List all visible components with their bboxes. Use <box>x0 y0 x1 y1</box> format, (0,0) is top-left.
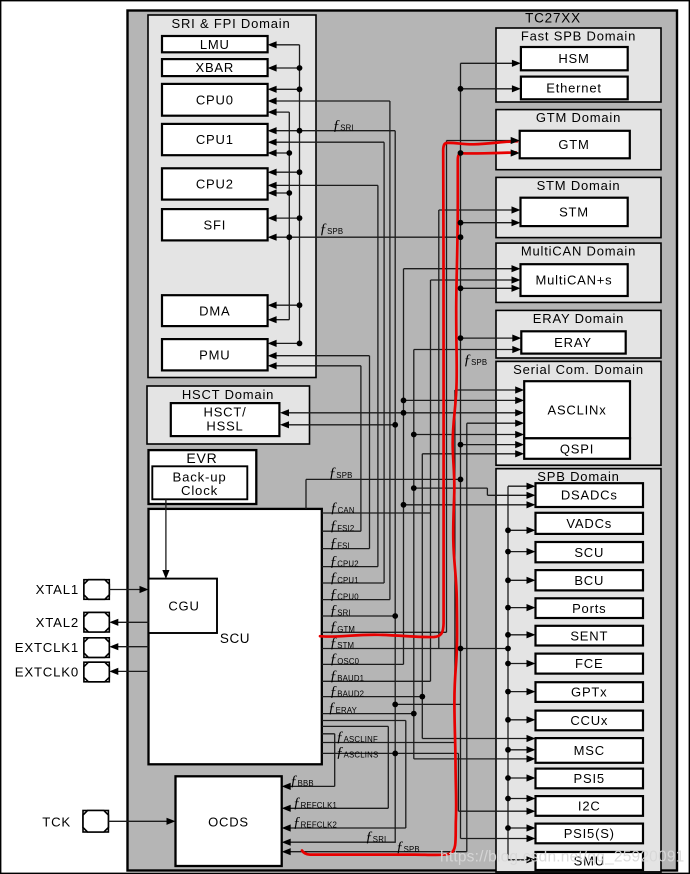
svg-text:ƒ: ƒ <box>336 745 344 761</box>
wire SCU to EXTCLK1 <box>112 646 149 648</box>
net f_SRI riser <box>270 131 395 843</box>
svg-text:EXTCLK1: EXTCLK1 <box>15 640 79 655</box>
svg-text:SRI: SRI <box>340 124 354 133</box>
pad EXTCLK0 <box>84 662 109 682</box>
block PSI5 <box>536 769 644 789</box>
svg-text:VADCs: VADCs <box>566 516 612 531</box>
wire f_STM across to SPB trunk <box>322 648 508 650</box>
svg-text:SRI: SRI <box>337 609 351 618</box>
wire ERAY arrow 1 <box>461 337 519 339</box>
block Back-up Clock <box>152 466 247 499</box>
block QSPI <box>524 438 630 459</box>
block SENT <box>536 626 644 646</box>
bus SPB domain trunk <box>507 486 509 860</box>
wire ASCLINx arrow 3 <box>404 412 522 414</box>
bus f_SRI distribution (vertical) <box>299 45 301 344</box>
svg-text:ƒ: ƒ <box>330 619 338 635</box>
block MultiCAN+s <box>521 264 628 296</box>
wire f_ERAY from SCU <box>322 713 414 715</box>
svg-text:Fast SPB Domain: Fast SPB Domain <box>521 28 636 43</box>
block DSADCs <box>536 483 644 507</box>
wire MSC arrow 1 <box>422 738 533 740</box>
svg-text:EVR: EVR <box>186 450 217 466</box>
wire ASCLINx arrow 2 <box>404 399 522 401</box>
svg-text:OCDS: OCDS <box>208 815 249 830</box>
wire HSM arrow <box>461 62 519 64</box>
SPB Domain box <box>496 469 661 872</box>
svg-text:ƒ: ƒ <box>293 795 301 811</box>
svg-text:DSADCs: DSADCs <box>561 488 618 503</box>
block VADCs <box>536 513 644 534</box>
block ASCLINx <box>524 381 630 438</box>
svg-text:CPU0: CPU0 <box>196 92 234 107</box>
SCU box <box>149 509 322 764</box>
svg-text:SPB Domain: SPB Domain <box>537 469 619 484</box>
svg-text:ƒ: ƒ <box>333 118 341 134</box>
wire ASCLINx arrow 5 <box>414 434 522 436</box>
ERAY Domain box <box>496 310 661 358</box>
svg-text:XTAL1: XTAL1 <box>36 582 79 597</box>
svg-text:CPU2: CPU2 <box>196 177 234 192</box>
svg-text:Serial Com. Domain: Serial Com. Domain <box>513 362 644 377</box>
block Ethernet <box>521 77 628 100</box>
net f_ERAY riser / ERAY arrow 2 <box>414 350 519 759</box>
block OCDS <box>176 776 282 866</box>
block SFI <box>162 209 268 240</box>
net f_OSC0 riser / MultiCAN arrow 1 <box>322 269 518 665</box>
wire f_SRI from SCU <box>322 615 395 617</box>
arrowheads <box>140 586 149 593</box>
net f_STM riser / STM arrow 1 <box>439 210 518 649</box>
svg-text:CPU1: CPU1 <box>337 576 359 585</box>
block BCU <box>536 570 644 590</box>
block GTM <box>520 131 630 159</box>
svg-text:REFCLK1: REFCLK1 <box>301 801 338 810</box>
wire PSI5(S) arrow 2 <box>461 838 534 840</box>
svg-text:CAN: CAN <box>338 506 355 515</box>
wire QSPI arrow 1 <box>461 444 522 446</box>
svg-text:ƒ: ƒ <box>330 554 338 570</box>
svg-text:SPB: SPB <box>327 227 343 236</box>
wire DSADCs arrow 3 <box>404 504 534 506</box>
svg-text:ASCLINS: ASCLINS <box>344 751 379 760</box>
svg-text:SRI: SRI <box>373 835 387 844</box>
svg-text:SENT: SENT <box>570 628 608 643</box>
svg-text:Ethernet: Ethernet <box>546 81 602 96</box>
svg-text:STM Domain: STM Domain <box>537 178 621 193</box>
block PMU <box>162 339 268 370</box>
block FCE <box>536 654 644 674</box>
svg-text:EXTCLK0: EXTCLK0 <box>15 664 79 679</box>
MultiCAN Domain box <box>496 243 661 302</box>
block DMA <box>162 295 268 326</box>
wire MSC arrow 3 <box>414 758 533 760</box>
pad XTAL1 <box>84 580 109 600</box>
net f_CPU0 <box>270 101 390 600</box>
svg-text:SPB: SPB <box>404 845 420 854</box>
STM Domain box <box>496 177 661 237</box>
svg-text:HSM: HSM <box>558 51 589 66</box>
svg-text:ƒ: ƒ <box>464 352 472 368</box>
wire to HSCT/HSSL 2 <box>283 424 396 426</box>
bus f_SPB distribution (vertical) <box>288 112 290 320</box>
pad XTAL2 <box>84 612 109 632</box>
net f_BBB to OCDS <box>284 734 335 787</box>
svg-text:ƒ: ƒ <box>336 729 344 745</box>
block LMU <box>162 36 268 52</box>
svg-text:MultiCAN Domain: MultiCAN Domain <box>521 244 636 259</box>
svg-text:PSI5(S): PSI5(S) <box>564 826 615 841</box>
svg-text:CPU2: CPU2 <box>337 560 359 569</box>
svg-text:ASCLINx: ASCLINx <box>547 403 606 418</box>
block GPTx <box>536 682 644 702</box>
svg-text:ƒ: ƒ <box>330 684 338 700</box>
svg-text:ƒ: ƒ <box>330 587 338 603</box>
svg-text:CGU: CGU <box>168 599 199 614</box>
svg-text:ƒ: ƒ <box>329 465 337 481</box>
TC27XX outer boundary box <box>128 11 678 871</box>
net f_ASCLINF / ASCLINx arrow 1 <box>322 390 522 743</box>
svg-text:QSPI: QSPI <box>560 442 594 457</box>
svg-text:CCUx: CCUx <box>570 713 608 728</box>
svg-text:ƒ: ƒ <box>330 536 338 552</box>
wire STM arrow 2 <box>461 222 519 224</box>
svg-text:ƒ: ƒ <box>293 815 301 831</box>
EVR box <box>149 450 257 504</box>
svg-text:STM: STM <box>559 205 589 220</box>
svg-text:CPU1: CPU1 <box>196 132 234 147</box>
wire MultiCAN arrow 3 <box>461 287 519 289</box>
svg-text:ƒ: ƒ <box>328 700 336 716</box>
net f_GTM riser / GTM arrow 1 <box>322 141 517 633</box>
svg-text:XBAR: XBAR <box>195 60 234 75</box>
wire XTAL1 to SCU <box>109 589 146 591</box>
svg-text:XTAL2: XTAL2 <box>36 615 79 630</box>
net f_BAUD1/f_CAN riser / MultiCAN arrow 2 <box>322 280 518 681</box>
svg-text:SRI & FPI Domain: SRI & FPI Domain <box>172 16 291 31</box>
svg-text:LMU: LMU <box>200 37 230 52</box>
svg-text:ƒ: ƒ <box>330 603 338 619</box>
svg-text:ƒ: ƒ <box>330 651 338 667</box>
svg-text:TC27XX: TC27XX <box>525 11 581 26</box>
svg-text:ƒ: ƒ <box>320 221 328 237</box>
svg-text:SFI: SFI <box>203 217 226 232</box>
net f_REFCLK2 to OCDS <box>284 721 406 829</box>
net f_ASCLINS / I2C arrow 2 <box>322 753 533 811</box>
block SMU <box>536 852 644 870</box>
net f_BAUD2 riser / QSPI arrow 2 <box>422 454 521 739</box>
svg-text:https://blog.csdn.net/qq_25920: https://blog.csdn.net/qq_25920091 <box>440 849 684 866</box>
svg-text:ƒ: ƒ <box>290 773 298 789</box>
net f_FSI to PMU <box>270 356 370 549</box>
svg-text:ASCLINF: ASCLINF <box>344 735 378 744</box>
svg-text:SPB: SPB <box>336 471 352 480</box>
svg-text:GTM: GTM <box>558 137 589 152</box>
block SCU <box>536 542 644 562</box>
block CPU1 <box>162 124 268 155</box>
net f_FSI2 to PMU <box>270 366 361 531</box>
svg-text:GTM: GTM <box>337 625 355 634</box>
wire TCK to OCDS <box>108 820 173 822</box>
net f_CPU2 <box>270 185 378 566</box>
pad EXTCLK1 <box>84 638 109 658</box>
block PSI5(S) <box>536 824 644 844</box>
svg-text:FCE: FCE <box>575 656 603 671</box>
svg-text:Clock: Clock <box>181 483 218 498</box>
svg-text:OSC0: OSC0 <box>337 657 359 666</box>
svg-text:ERAY Domain: ERAY Domain <box>533 311 624 326</box>
block HSM <box>521 47 628 70</box>
wire GTM arrow 2 <box>461 152 518 154</box>
bus f_SPB trunk <box>460 63 462 838</box>
wire SMU arrow <box>508 859 533 861</box>
SRI & FPI Domain box <box>148 15 316 378</box>
svg-text:ƒ: ƒ <box>365 829 373 845</box>
wire DSADCs arrow 2 <box>414 488 533 495</box>
block CCUx <box>536 711 644 731</box>
svg-text:FSI: FSI <box>337 542 350 551</box>
red annotation trace: f_GTM path to GTM <box>320 141 517 637</box>
svg-text:SCU: SCU <box>220 631 250 646</box>
wire DSADCs arrow 1 <box>508 485 533 487</box>
wire f_SPB from SCU top <box>306 479 461 509</box>
block CGU <box>149 579 218 633</box>
net f_SPB to ASCLINx arrow 4 and OCDS <box>284 423 522 852</box>
svg-text:BAUD2: BAUD2 <box>337 690 364 699</box>
GTM Domain box <box>496 110 661 170</box>
svg-text:HSCT/: HSCT/ <box>204 405 247 420</box>
svg-text:ƒ: ƒ <box>330 518 338 534</box>
block CPU2 <box>162 168 268 199</box>
svg-text:MultiCAN+s: MultiCAN+s <box>536 273 613 288</box>
block ERAY <box>521 331 625 353</box>
svg-text:REFCLK2: REFCLK2 <box>301 821 338 830</box>
svg-text:FSI2: FSI2 <box>337 524 354 533</box>
Fast SPB Domain box <box>496 28 661 102</box>
svg-text:DMA: DMA <box>199 303 230 318</box>
svg-text:ERAY: ERAY <box>554 335 592 350</box>
svg-text:STM: STM <box>337 641 354 650</box>
block STM <box>521 198 628 226</box>
svg-text:BAUD1: BAUD1 <box>337 674 364 683</box>
svg-text:SPB: SPB <box>471 358 487 367</box>
svg-text:HSSL: HSSL <box>206 419 243 434</box>
svg-text:PSI5: PSI5 <box>574 771 605 786</box>
net f_REFCLK1 to OCDS <box>284 726 388 808</box>
block Ports <box>536 598 644 618</box>
svg-text:BBB: BBB <box>298 779 314 788</box>
wire f_SRI riser tee <box>395 703 460 705</box>
svg-text:MSC: MSC <box>574 743 605 758</box>
junction dots <box>297 65 303 71</box>
wire f_CAN from SCU <box>322 512 431 514</box>
svg-text:ƒ: ƒ <box>396 839 404 855</box>
svg-text:PMU: PMU <box>199 347 230 362</box>
svg-text:TCK: TCK <box>42 815 71 830</box>
wire f_BAUD2 from SCU <box>322 696 423 698</box>
wire SCU to XTAL2 <box>112 621 149 623</box>
svg-text:HSCT Domain: HSCT Domain <box>182 387 274 402</box>
block CPU0 <box>162 84 268 116</box>
svg-text:GTM Domain: GTM Domain <box>536 110 621 125</box>
wire SCU to EXTCLK0 <box>112 670 149 672</box>
HSCT Domain box <box>147 386 310 444</box>
svg-text:ƒ: ƒ <box>330 570 338 586</box>
pad TCK <box>83 811 108 833</box>
block MSC <box>536 738 644 763</box>
svg-text:CPU0: CPU0 <box>337 593 359 602</box>
wire f_SPB to SFI <box>270 236 461 238</box>
wire Ethernet arrow <box>461 88 519 90</box>
wire Back-up Clock to CGU <box>165 499 167 576</box>
svg-text:SCU: SCU <box>574 545 604 560</box>
svg-text:ƒ: ƒ <box>330 668 338 684</box>
block I2C <box>536 796 644 816</box>
Serial Com. Domain box <box>496 361 661 465</box>
svg-text:BCU: BCU <box>574 573 604 588</box>
svg-text:I2C: I2C <box>578 799 601 814</box>
svg-text:ƒ: ƒ <box>330 500 338 516</box>
svg-text:GPTx: GPTx <box>571 685 607 700</box>
wire to HSCT/HSSL 1 <box>283 412 404 414</box>
svg-text:Ports: Ports <box>572 601 606 616</box>
block HSCT/HSSL <box>171 403 280 436</box>
block XBAR <box>162 59 268 76</box>
svg-text:ERAY: ERAY <box>336 706 358 715</box>
red annotation trace: f_SPB path to OCDS <box>302 152 516 855</box>
net f_CPU1 <box>270 142 384 583</box>
